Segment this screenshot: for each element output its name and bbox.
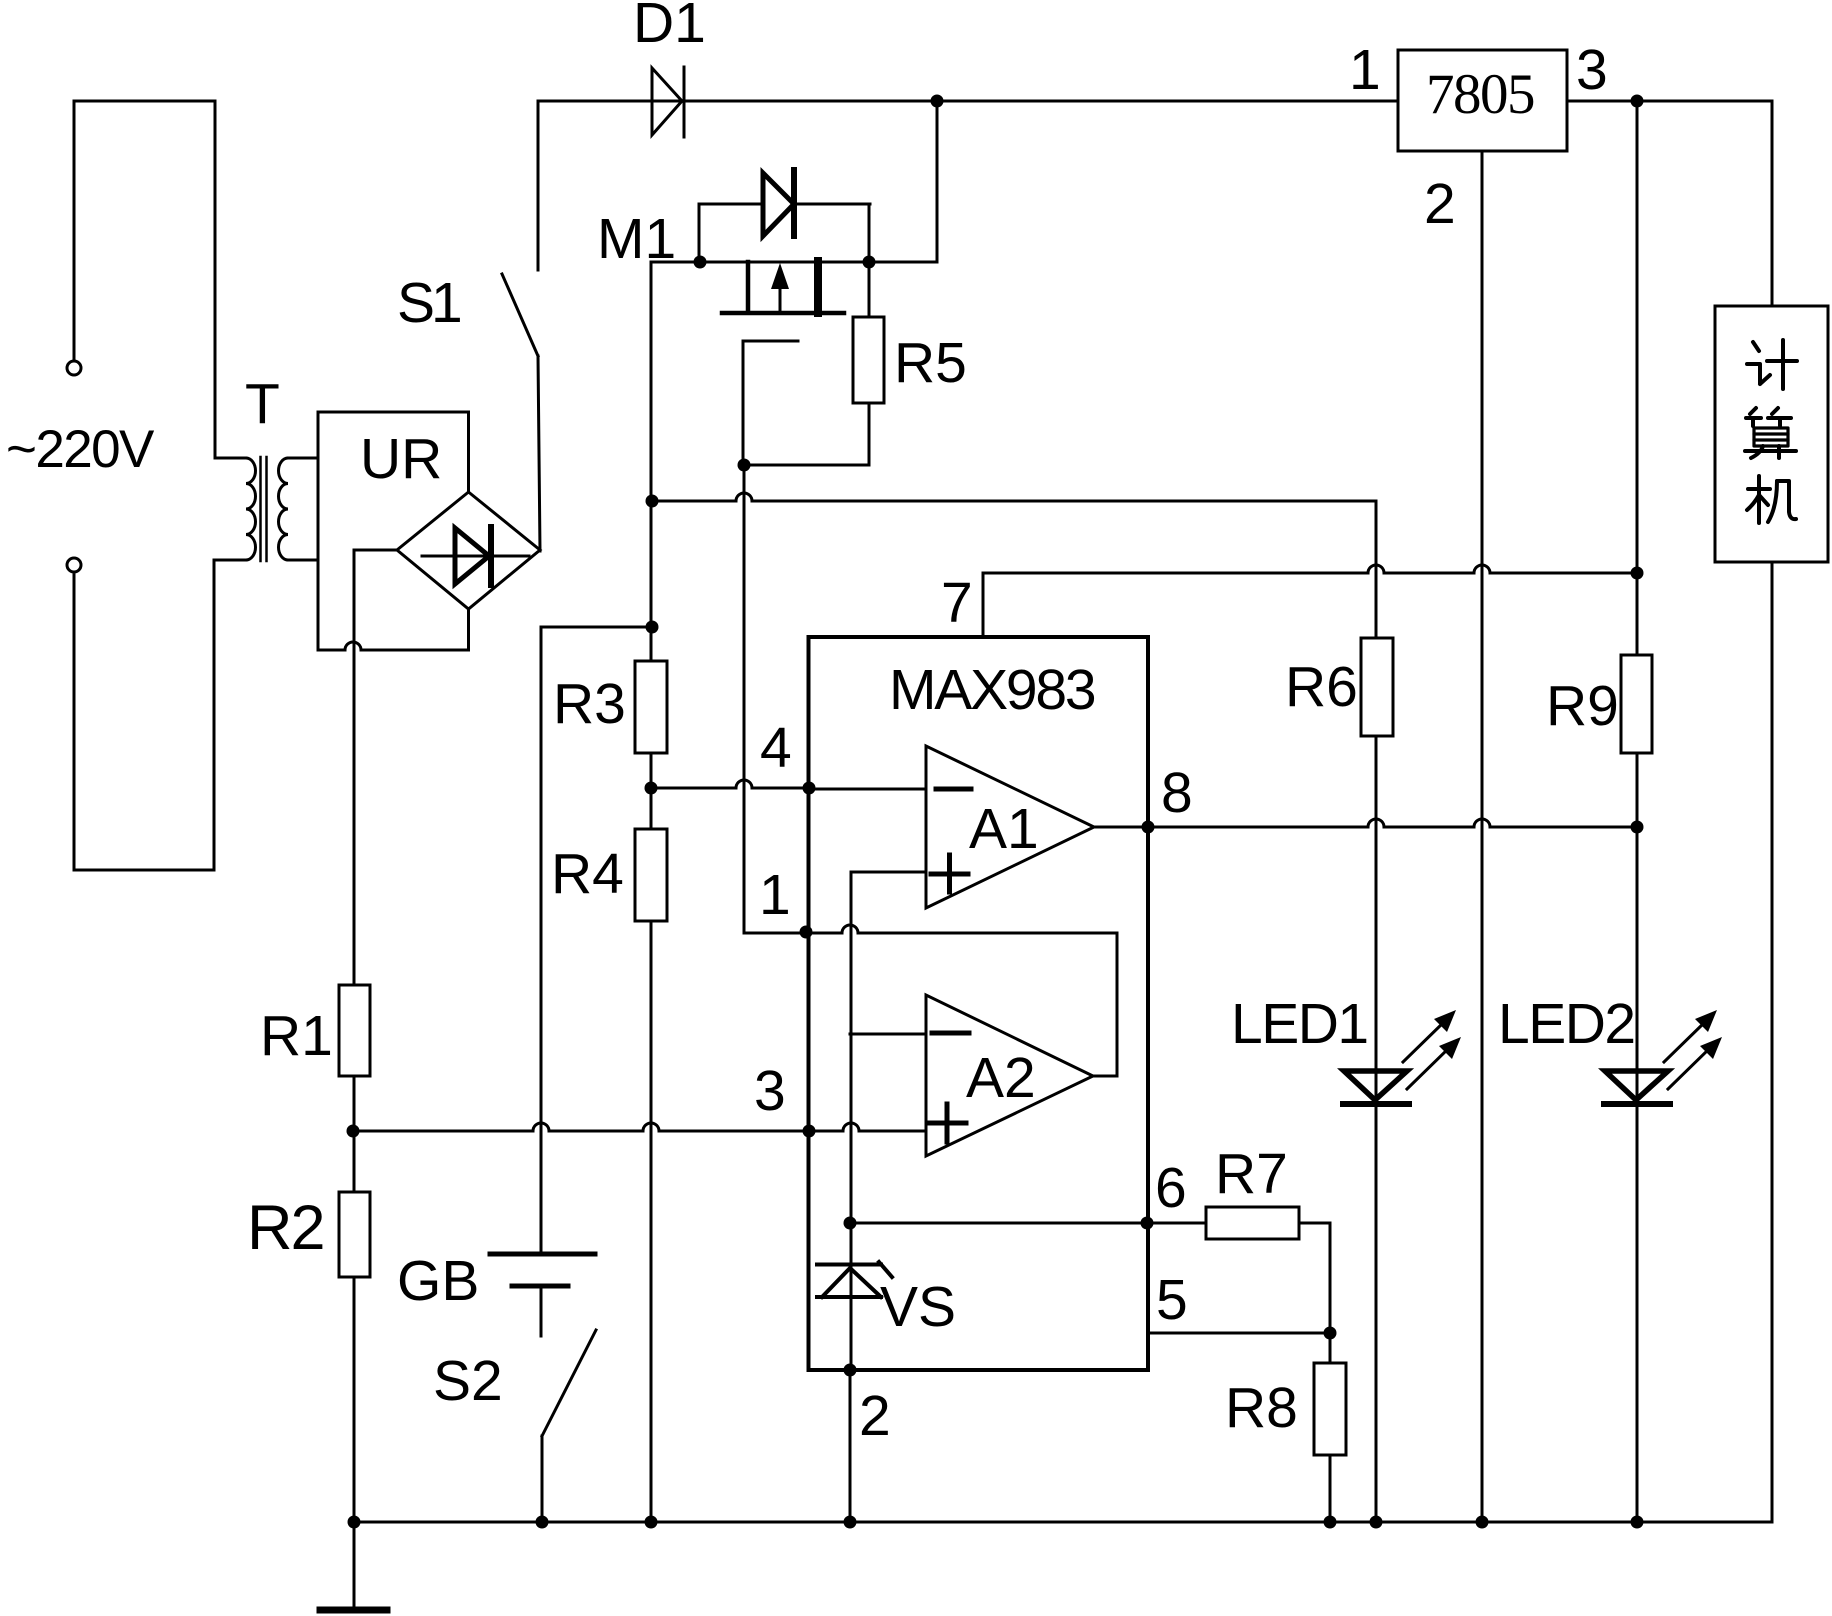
svg-text:A1: A1	[969, 797, 1039, 861]
svg-text:UR: UR	[360, 427, 442, 491]
svg-text:R8: R8	[1225, 1376, 1298, 1440]
svg-text:8: 8	[1161, 761, 1193, 825]
svg-text:R5: R5	[894, 331, 967, 395]
svg-text:R7: R7	[1215, 1142, 1288, 1206]
svg-text:3: 3	[1576, 38, 1608, 102]
svg-text:LED2: LED2	[1498, 992, 1635, 1056]
svg-text:5: 5	[1156, 1268, 1188, 1332]
svg-text:A2: A2	[966, 1046, 1036, 1110]
svg-text:R1: R1	[260, 1004, 333, 1068]
svg-text:S1: S1	[397, 271, 460, 335]
svg-text:7: 7	[941, 571, 973, 635]
svg-text:6: 6	[1155, 1156, 1187, 1220]
svg-text:1: 1	[1349, 38, 1381, 102]
svg-text:R6: R6	[1285, 655, 1358, 719]
svg-text:R4: R4	[551, 842, 624, 906]
svg-text:T: T	[245, 372, 280, 436]
svg-text:2: 2	[859, 1384, 891, 1448]
svg-text:~220V: ~220V	[6, 420, 155, 479]
svg-text:R3: R3	[553, 672, 626, 736]
svg-text:R9: R9	[1546, 674, 1619, 738]
svg-text:D1: D1	[633, 0, 706, 55]
svg-text:7805: 7805	[1426, 63, 1534, 126]
svg-text:LED1: LED1	[1231, 992, 1368, 1056]
svg-text:S2: S2	[433, 1349, 503, 1413]
svg-text:MAX983: MAX983	[889, 658, 1095, 722]
svg-text:M1: M1	[597, 207, 676, 271]
svg-text:3: 3	[754, 1059, 786, 1123]
svg-text:VS: VS	[880, 1275, 956, 1339]
svg-text:1: 1	[759, 863, 791, 927]
svg-text:2: 2	[1424, 172, 1456, 236]
svg-text:4: 4	[760, 716, 792, 780]
svg-text:GB: GB	[397, 1249, 479, 1313]
svg-text:R2: R2	[247, 1193, 324, 1263]
